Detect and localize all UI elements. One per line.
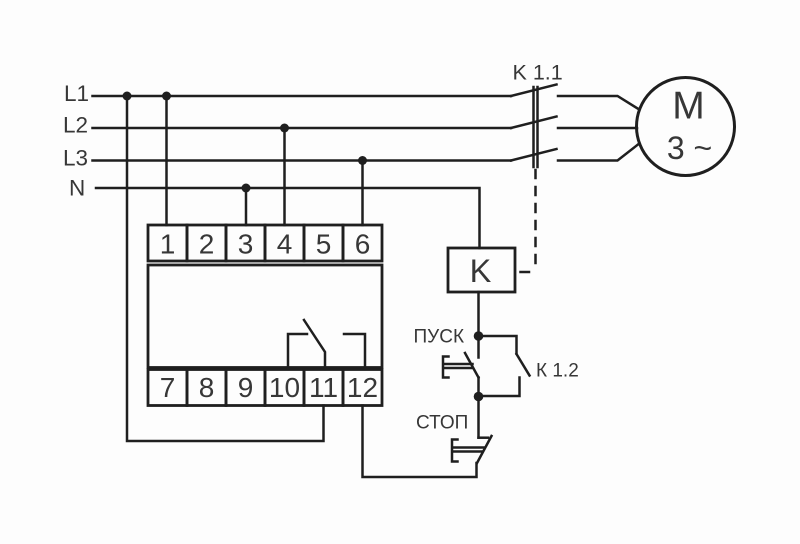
svg-text:1: 1 bbox=[160, 229, 176, 260]
svg-text:L1: L1 bbox=[64, 81, 89, 106]
svg-text:7: 7 bbox=[160, 372, 176, 403]
svg-text:11: 11 bbox=[309, 372, 338, 403]
svg-text:4: 4 bbox=[277, 229, 293, 260]
svg-text:L3: L3 bbox=[63, 146, 88, 171]
svg-text:5: 5 bbox=[316, 229, 332, 260]
svg-text:6: 6 bbox=[355, 229, 371, 260]
svg-text:2: 2 bbox=[199, 229, 215, 260]
svg-text:K: K bbox=[470, 253, 492, 289]
svg-text:К 1.2: К 1.2 bbox=[536, 361, 579, 382]
svg-text:10: 10 bbox=[269, 372, 300, 403]
svg-text:3 ~: 3 ~ bbox=[667, 130, 712, 166]
svg-text:K 1.1: K 1.1 bbox=[513, 61, 563, 85]
svg-text:9: 9 bbox=[238, 372, 254, 403]
svg-text:СТОП: СТОП bbox=[416, 413, 468, 434]
svg-text:N: N bbox=[69, 176, 85, 201]
svg-text:L2: L2 bbox=[63, 113, 88, 138]
svg-text:3: 3 bbox=[238, 229, 254, 260]
svg-text:ПУСК: ПУСК bbox=[414, 327, 465, 348]
svg-text:M: M bbox=[672, 85, 705, 128]
svg-text:12: 12 bbox=[347, 372, 378, 403]
svg-text:8: 8 bbox=[199, 372, 215, 403]
